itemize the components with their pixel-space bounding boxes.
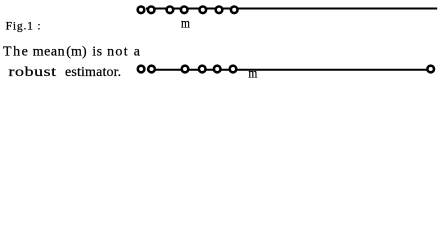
svg-text:a: a — [134, 44, 141, 59]
node: bottom dot 5 — [214, 66, 221, 73]
label m (bottom mean) — [248, 66, 257, 81]
svg-text:estimator.: estimator. — [65, 65, 121, 80]
node: top dot 3 — [167, 7, 174, 14]
caption Fig.1: — [6, 20, 41, 33]
node: top dot 5 — [200, 7, 207, 14]
node: bottom outlier dot — [427, 66, 434, 73]
svg-text:not: not — [107, 44, 129, 59]
node: top dot 6 — [216, 7, 223, 14]
svg-text:The: The — [3, 44, 29, 59]
svg-text::: : — [37, 20, 40, 33]
svg-text:m: m — [181, 15, 190, 30]
svg-text:(m): (m) — [66, 44, 87, 59]
svg-text:robust: robust — [9, 65, 57, 80]
node: bottom dot 4 — [199, 66, 206, 73]
node: bottom dot 1 — [138, 66, 145, 73]
wire: top number line — [146, 8, 437, 10]
node: top dot 4 — [181, 7, 188, 14]
wire: bottom number line — [147, 69, 431, 71]
node: top dot 2 — [148, 7, 155, 14]
svg-text:is: is — [92, 44, 103, 59]
caption line: robust estimator. — [9, 65, 122, 80]
svg-text:Fig.1: Fig.1 — [6, 20, 34, 33]
node: bottom dot 6 — [230, 66, 237, 73]
node: top dot 1 — [138, 7, 145, 14]
node: bottom dot 2 — [148, 66, 155, 73]
svg-text:m: m — [248, 66, 257, 81]
node: bottom dot 3 — [182, 66, 189, 73]
caption line: The mean (m) is not a — [3, 44, 141, 59]
node: top dot 7 — [231, 7, 238, 14]
svg-text:mean: mean — [33, 44, 66, 59]
label m (top mean) — [181, 15, 190, 30]
